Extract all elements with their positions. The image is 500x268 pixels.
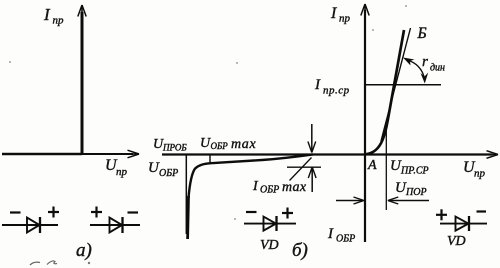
svg-text:а): а) [76,240,92,261]
svg-text:пр: пр [53,15,65,27]
svg-text:VD: VD [260,238,279,253]
svg-text:дин: дин [430,63,445,74]
svg-text:I: I [252,179,259,194]
svg-text:max: max [231,137,257,152]
svg-text:б): б) [292,240,308,261]
svg-text:пр: пр [474,168,486,180]
svg-text:Б: Б [417,25,427,42]
svg-text:ОБР: ОБР [260,185,279,196]
svg-text:ПРОБ: ПРОБ [162,143,187,153]
svg-text:ПОР: ПОР [405,187,427,198]
svg-text:I: I [314,77,321,93]
svg-text:пр: пр [116,166,128,178]
svg-text:I: I [330,5,337,22]
svg-text:VD: VD [447,234,466,249]
svg-text:U: U [200,136,211,151]
svg-text:I: I [43,5,51,24]
svg-text:A: A [367,158,377,173]
svg-text:пр.ср: пр.ср [323,85,350,97]
svg-text:r: r [422,54,428,70]
svg-text:max: max [282,180,307,195]
svg-text:ОБР: ОБР [159,168,178,179]
svg-text:ОБР: ОБР [211,141,229,151]
svg-text:пр: пр [339,13,351,25]
svg-text:I: I [327,226,334,242]
svg-text:ПР.СР: ПР.СР [400,166,429,177]
svg-text:ОБР: ОБР [336,234,355,245]
